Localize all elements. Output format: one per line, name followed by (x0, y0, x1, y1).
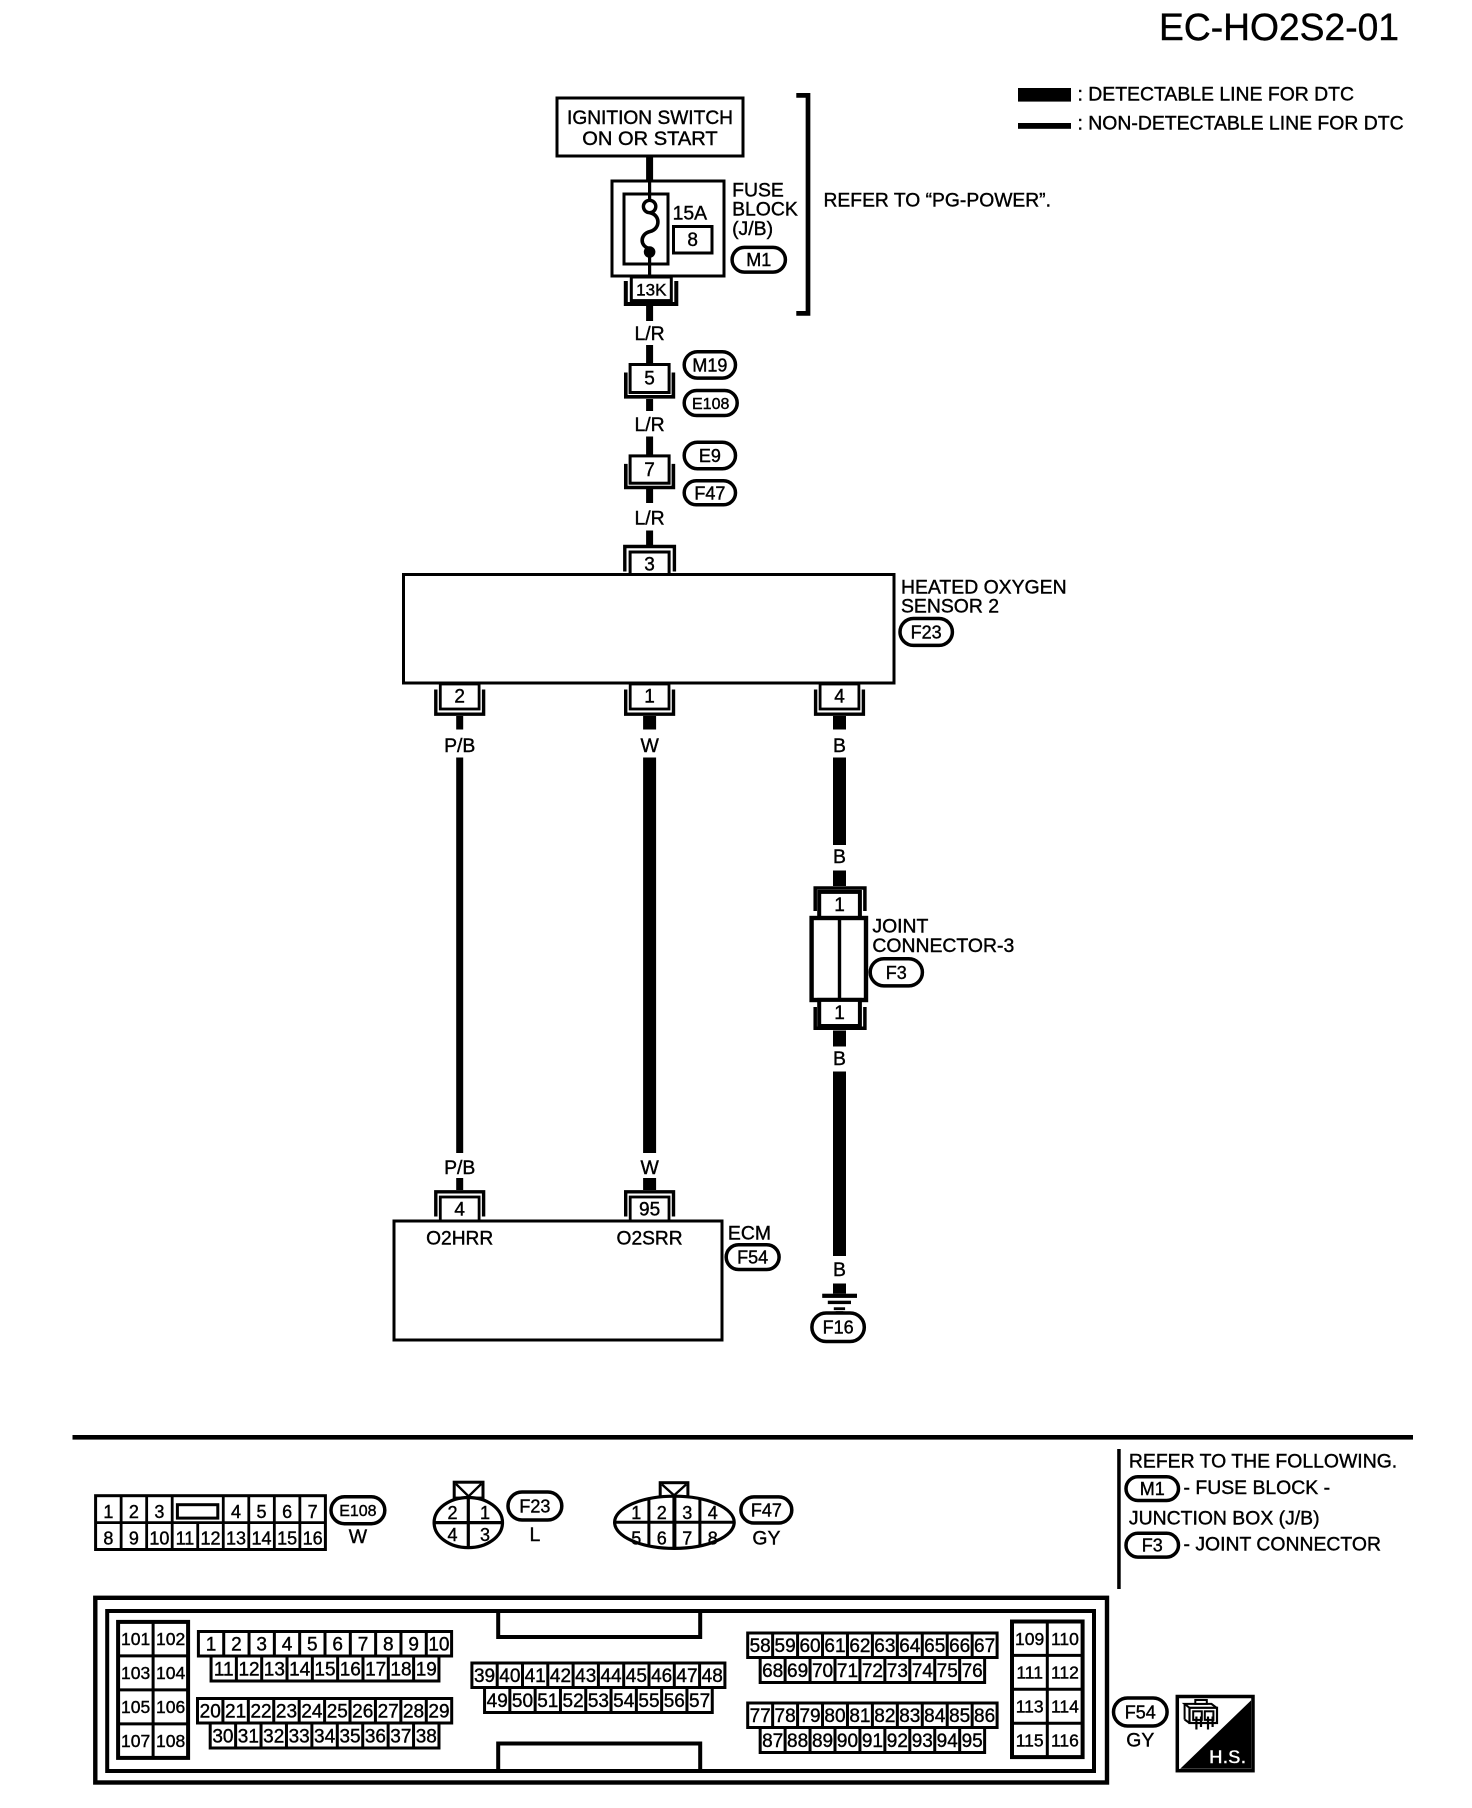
svg-text:10: 10 (428, 1635, 449, 1656)
ECM pin grid 109-116 (1012, 1622, 1083, 1758)
svg-text:: NON-DETECTABLE LINE FOR DTC: : NON-DETECTABLE LINE FOR DTC (1078, 113, 1404, 135)
svg-text:3: 3 (256, 1635, 267, 1656)
svg-text:F47: F47 (751, 1500, 782, 1520)
connector 3 into heated oxygen sensor (625, 547, 675, 577)
ECM pin row 58-67 (748, 1633, 997, 1658)
svg-text:B: B (833, 846, 846, 868)
svg-text:P/B: P/B (444, 1157, 475, 1179)
svg-text:O2HRR: O2HRR (426, 1229, 493, 1250)
svg-text:84: 84 (924, 1706, 946, 1727)
connector oval F16 (ground) (812, 1313, 864, 1342)
ECM pin row 11-19 (211, 1656, 439, 1681)
wire B joint connector to ground (833, 1072, 846, 1257)
wire label L/R (3) (635, 508, 665, 530)
svg-text:GY: GY (1126, 1730, 1154, 1752)
svg-text:7: 7 (358, 1635, 369, 1656)
wire L/R label to connector M19 (646, 345, 653, 365)
svg-text:24: 24 (301, 1702, 323, 1723)
bracket for fuse block section (796, 95, 808, 313)
svg-text:5: 5 (257, 1502, 267, 1522)
svg-text:55: 55 (638, 1691, 659, 1712)
svg-text:22: 22 (250, 1702, 271, 1723)
svg-text:60: 60 (799, 1636, 820, 1657)
svg-text:9: 9 (129, 1528, 139, 1548)
svg-text:73: 73 (887, 1661, 908, 1682)
svg-text:IGNITION SWITCH: IGNITION SWITCH (567, 107, 733, 129)
fuse block outer box (J/B) (612, 181, 724, 276)
svg-text:2: 2 (657, 1503, 667, 1523)
svg-text:(J/B): (J/B) (732, 218, 773, 240)
connector color W (E108) (349, 1526, 368, 1548)
svg-text:58: 58 (750, 1636, 771, 1657)
svg-text:44: 44 (600, 1666, 622, 1687)
ECM connector inner box (107, 1611, 1094, 1771)
svg-text:30: 30 (212, 1726, 233, 1747)
connector oval E9 (684, 442, 735, 468)
ECM pin row 20-29 (198, 1699, 452, 1724)
label joint connector-3 (872, 915, 1014, 956)
svg-text:1: 1 (644, 687, 655, 708)
svg-text:36: 36 (365, 1726, 386, 1747)
svg-text:5: 5 (307, 1635, 318, 1656)
svg-text:46: 46 (651, 1666, 672, 1687)
svg-text:EC-HO2S2-01: EC-HO2S2-01 (1159, 7, 1399, 49)
svg-text:71: 71 (837, 1661, 858, 1682)
svg-text:82: 82 (874, 1706, 895, 1727)
svg-text:9: 9 (408, 1635, 419, 1656)
wire L/R fuse block to label (646, 306, 653, 321)
svg-text:CONNECTOR-3: CONNECTOR-3 (872, 935, 1014, 957)
svg-text:15A: 15A (673, 203, 708, 225)
svg-text:SENSOR 2: SENSOR 2 (901, 596, 999, 618)
svg-text:6: 6 (332, 1635, 343, 1656)
right panel text fuse block (1184, 1477, 1331, 1499)
svg-text:102: 102 (156, 1629, 185, 1649)
connector color GY (F54) (1126, 1730, 1154, 1752)
svg-text:ON OR START: ON OR START (582, 128, 718, 150)
svg-text:14: 14 (252, 1528, 272, 1548)
wire label L/R (2) (635, 414, 665, 436)
svg-text:28: 28 (403, 1702, 424, 1723)
svg-text:108: 108 (156, 1731, 185, 1751)
svg-text:M19: M19 (692, 355, 727, 375)
svg-text:27: 27 (378, 1702, 399, 1723)
svg-text:14: 14 (289, 1659, 311, 1680)
svg-text:79: 79 (799, 1706, 820, 1727)
svg-text:12: 12 (238, 1659, 259, 1680)
svg-text:101: 101 (121, 1629, 150, 1649)
svg-text:32: 32 (263, 1726, 284, 1747)
svg-text:109: 109 (1015, 1629, 1044, 1649)
label ECM (728, 1222, 771, 1244)
svg-text:8: 8 (708, 1529, 718, 1549)
svg-text:18: 18 (390, 1659, 411, 1680)
svg-text:74: 74 (912, 1661, 934, 1682)
ECM connector outer box (95, 1598, 1107, 1783)
fuse symbol 15A inside fuse block (642, 182, 658, 277)
ECM pin row 49-57 (485, 1688, 713, 1713)
svg-text:F3: F3 (1142, 1536, 1163, 1556)
svg-text:4: 4 (282, 1635, 293, 1656)
svg-text:11: 11 (214, 1659, 234, 1680)
legend text detectable (1078, 83, 1355, 105)
svg-text:15: 15 (314, 1659, 335, 1680)
svg-text:3: 3 (644, 554, 655, 575)
ignition switch box (557, 98, 743, 156)
svg-text:O2SRR: O2SRR (617, 1229, 683, 1250)
svg-text:3: 3 (154, 1502, 164, 1522)
svg-text:W: W (349, 1526, 368, 1548)
wire label B (2) (833, 846, 846, 868)
connector oval E108 (bottom) (331, 1497, 385, 1524)
svg-text:2: 2 (231, 1635, 242, 1656)
wire stub below sensor pin 1 (643, 716, 656, 730)
svg-text:112: 112 (1051, 1663, 1079, 1683)
ECM connector top notch (498, 1611, 700, 1637)
svg-text:33: 33 (289, 1726, 310, 1747)
heated oxygen sensor 2 box (404, 575, 895, 684)
sensor pin 1 (626, 684, 674, 714)
svg-text:51: 51 (537, 1691, 558, 1712)
svg-text:REFER TO “PG-POWER”.: REFER TO “PG-POWER”. (824, 191, 1051, 212)
svg-text:31: 31 (238, 1726, 259, 1747)
svg-text:83: 83 (899, 1706, 920, 1727)
svg-text:12: 12 (200, 1528, 220, 1548)
svg-text:1: 1 (834, 895, 845, 916)
svg-text:110: 110 (1051, 1629, 1079, 1649)
svg-text:81: 81 (849, 1706, 870, 1727)
svg-text:M1: M1 (1140, 1479, 1165, 1499)
wire label B (4) (833, 1259, 846, 1281)
svg-text:3: 3 (682, 1503, 692, 1523)
wire below joint connector (833, 1031, 846, 1047)
svg-text:13: 13 (264, 1659, 285, 1680)
svg-text:16: 16 (303, 1528, 323, 1548)
svg-text:- FUSE BLOCK -: - FUSE BLOCK - (1184, 1477, 1331, 1499)
svg-text:61: 61 (824, 1636, 845, 1657)
svg-text:38: 38 (416, 1726, 437, 1747)
ECM connector bottom notch (498, 1744, 700, 1772)
svg-text:39: 39 (474, 1666, 495, 1687)
svg-text:15: 15 (277, 1528, 297, 1548)
svg-text:91: 91 (862, 1731, 883, 1752)
connector oval F47 (684, 481, 735, 505)
svg-text:43: 43 (575, 1666, 596, 1687)
ECM pin row 68-76 (760, 1658, 984, 1683)
svg-text:E108: E108 (339, 1503, 376, 1520)
svg-text:80: 80 (824, 1706, 845, 1727)
svg-text:1: 1 (480, 1503, 490, 1523)
svg-text:23: 23 (276, 1702, 297, 1723)
svg-text:19: 19 (416, 1659, 437, 1680)
svg-text:103: 103 (121, 1663, 150, 1683)
legend detectable line sample bar (1018, 88, 1071, 102)
connector oval F54 (bottom) (1114, 1698, 1168, 1726)
svg-text:6: 6 (657, 1529, 667, 1549)
svg-text:56: 56 (664, 1691, 685, 1712)
svg-text:8: 8 (383, 1635, 394, 1656)
svg-text:JUNCTION BOX (J/B): JUNCTION BOX (J/B) (1129, 1507, 1320, 1529)
wire W into ECM (643, 1178, 656, 1190)
svg-text:65: 65 (924, 1636, 945, 1657)
right panel divider vertical line (1117, 1449, 1121, 1589)
svg-text:50: 50 (512, 1691, 533, 1712)
right panel text junction box (1129, 1507, 1320, 1529)
svg-text:34: 34 (314, 1726, 336, 1747)
ECM terminal name O2HRR (426, 1229, 493, 1250)
ECM pin row 77-86 (748, 1703, 997, 1728)
svg-text:25: 25 (327, 1702, 348, 1723)
svg-text:77: 77 (750, 1706, 771, 1727)
fuse block terminal 13K connector (626, 277, 677, 304)
svg-text:49: 49 (487, 1691, 508, 1712)
connector F47 face (8-pin oval) (615, 1483, 735, 1549)
svg-text:M1: M1 (746, 250, 771, 270)
svg-text:L/R: L/R (635, 414, 665, 436)
ECM box (394, 1221, 722, 1340)
wire stub below sensor pin 2 (456, 716, 463, 730)
wire label P/B (1) (444, 735, 475, 757)
wire W long run (643, 758, 656, 1154)
connector F23 face (4-pin round) (434, 1482, 502, 1548)
svg-text:4: 4 (834, 687, 845, 708)
svg-text:6: 6 (282, 1502, 292, 1522)
svg-text:W: W (640, 735, 659, 757)
svg-text:W: W (640, 1157, 659, 1179)
svg-text:106: 106 (156, 1697, 185, 1717)
svg-text:59: 59 (775, 1636, 796, 1657)
svg-text:76: 76 (962, 1661, 983, 1682)
svg-text:GY: GY (752, 1527, 780, 1549)
svg-text:75: 75 (937, 1661, 958, 1682)
svg-text:3: 3 (480, 1525, 490, 1545)
svg-text:B: B (833, 1048, 846, 1070)
svg-text:88: 88 (787, 1731, 808, 1752)
ECM pin 4 (436, 1192, 484, 1222)
sensor pin 4 (816, 684, 864, 714)
wire label L/R (1) (635, 323, 665, 345)
svg-text:11: 11 (176, 1528, 195, 1548)
svg-text:94: 94 (937, 1731, 959, 1752)
svg-text:86: 86 (974, 1706, 995, 1727)
svg-text:104: 104 (156, 1663, 185, 1683)
svg-text:113: 113 (1016, 1697, 1044, 1717)
wire label W (2) (640, 1157, 659, 1179)
svg-text:66: 66 (949, 1636, 970, 1657)
svg-text:89: 89 (812, 1731, 833, 1752)
svg-text:42: 42 (550, 1666, 571, 1687)
svg-text:35: 35 (339, 1726, 360, 1747)
svg-text:26: 26 (352, 1702, 373, 1723)
svg-text:P/B: P/B (444, 735, 475, 757)
ECM pin row 87-95 (760, 1728, 984, 1753)
svg-text:L/R: L/R (635, 508, 665, 530)
svg-text:64: 64 (899, 1636, 921, 1657)
svg-text:1: 1 (206, 1635, 217, 1656)
svg-text:95: 95 (962, 1731, 983, 1752)
wire label B (1) (833, 735, 846, 757)
svg-text:F23: F23 (911, 622, 942, 642)
svg-text:20: 20 (200, 1702, 221, 1723)
sensor pin 2 (436, 684, 484, 714)
svg-text:62: 62 (849, 1636, 870, 1657)
svg-text:7: 7 (644, 460, 655, 481)
connector oval F54 (ECM) (726, 1245, 779, 1270)
svg-text:52: 52 (563, 1691, 584, 1712)
section separator line (73, 1435, 1414, 1440)
connector oval M19 (684, 352, 735, 378)
connector color GY (F47) (752, 1527, 780, 1549)
svg-text:13K: 13K (636, 281, 667, 300)
connector oval F3 (joint connector) (870, 959, 922, 986)
svg-text:L/R: L/R (635, 323, 665, 345)
joint connector-3 symbol with pins 1 (812, 888, 866, 1028)
right panel connector oval M1 (1126, 1477, 1179, 1501)
wire B label to joint connector (833, 871, 846, 887)
label heated oxygen sensor 2 (901, 576, 1067, 617)
svg-text:107: 107 (121, 1731, 150, 1751)
wire B sensor to label (833, 758, 846, 846)
svg-text:E108: E108 (692, 396, 729, 413)
connector grid E108 (16-pin) (96, 1496, 326, 1550)
ground symbol (822, 1294, 857, 1313)
svg-text:47: 47 (676, 1666, 697, 1687)
ECM terminal name O2SRR (617, 1229, 683, 1250)
svg-text:114: 114 (1051, 1697, 1079, 1717)
svg-text:41: 41 (525, 1666, 546, 1687)
svg-text:57: 57 (689, 1691, 710, 1712)
legend text non-detectable (1078, 113, 1404, 135)
fuse number box 8 (674, 227, 713, 254)
ECM pin row 39-48 (472, 1663, 725, 1688)
svg-text:E9: E9 (699, 446, 721, 466)
wire label B (3) (833, 1048, 846, 1070)
svg-text:90: 90 (837, 1731, 858, 1752)
svg-text:F3: F3 (886, 963, 907, 983)
connector color L (F23) (530, 1524, 541, 1546)
inline connector 7 (E9/F47) (626, 456, 674, 488)
wire below connector 5 (646, 399, 653, 411)
svg-text:92: 92 (887, 1731, 908, 1752)
svg-text:17: 17 (365, 1659, 386, 1680)
svg-text:63: 63 (874, 1636, 895, 1657)
svg-text:1: 1 (834, 1003, 845, 1024)
legend non-detectable line sample bar (1018, 123, 1071, 129)
svg-text:ECM: ECM (728, 1222, 771, 1244)
right panel text joint connector (1184, 1533, 1382, 1555)
svg-text:B: B (833, 735, 846, 757)
fuse block label text (732, 179, 798, 240)
svg-text:13: 13 (226, 1528, 246, 1548)
svg-text:116: 116 (1051, 1730, 1079, 1750)
connector oval F23 (sensor) (900, 619, 952, 646)
svg-text:F16: F16 (823, 1318, 854, 1338)
wire below connector 7 (646, 488, 653, 503)
svg-text:2: 2 (129, 1502, 139, 1522)
wire stub below sensor pin 4 (833, 716, 846, 730)
title EC-HO2S2-01 (1159, 7, 1399, 49)
svg-text:69: 69 (787, 1661, 808, 1682)
svg-text:8: 8 (103, 1528, 113, 1548)
svg-text:21: 21 (225, 1702, 246, 1723)
wire L/R label to connector 3 (646, 531, 653, 548)
svg-text:5: 5 (644, 369, 655, 390)
svg-text:53: 53 (588, 1691, 609, 1712)
svg-text:F47: F47 (694, 483, 725, 503)
svg-text:: DETECTABLE LINE FOR DTC: : DETECTABLE LINE FOR DTC (1078, 83, 1355, 105)
svg-text:37: 37 (390, 1726, 411, 1747)
svg-text:1: 1 (631, 1503, 641, 1523)
svg-text:48: 48 (702, 1666, 723, 1687)
svg-text:F54: F54 (737, 1248, 768, 1268)
connector oval E108 (684, 391, 737, 416)
wire label P/B (2) (444, 1157, 475, 1179)
svg-text:29: 29 (428, 1702, 449, 1723)
svg-text:68: 68 (762, 1661, 783, 1682)
connector oval F47 (bottom) (741, 1497, 792, 1523)
svg-text:72: 72 (862, 1661, 883, 1682)
wire P/B long run (456, 758, 463, 1154)
svg-text:1: 1 (103, 1502, 113, 1522)
svg-text:B: B (833, 1259, 846, 1281)
svg-text:70: 70 (812, 1661, 833, 1682)
right panel connector oval F3 (1126, 1533, 1179, 1557)
svg-text:4: 4 (231, 1502, 241, 1522)
svg-text:7: 7 (308, 1502, 318, 1522)
svg-text:93: 93 (912, 1731, 933, 1752)
wire P/B into ECM (456, 1178, 463, 1190)
H.S. view logo (1177, 1697, 1253, 1771)
right panel note line 1 (1129, 1451, 1397, 1473)
svg-text:85: 85 (949, 1706, 970, 1727)
wire ignition switch to fuse block (646, 156, 653, 182)
svg-text:8: 8 (687, 230, 698, 251)
svg-text:115: 115 (1016, 1730, 1044, 1750)
ECM pin row 30-38 (210, 1723, 439, 1748)
connector oval M1 (fuse block) (732, 247, 785, 272)
svg-text:67: 67 (974, 1636, 995, 1657)
fuse rating label 15A (673, 203, 708, 225)
svg-text:- JOINT CONNECTOR: - JOINT CONNECTOR (1184, 1533, 1382, 1555)
inline connector 5 (M19/E108) (626, 365, 674, 397)
note refer to PG-POWER (824, 191, 1051, 212)
ECM pin row 1-10 (198, 1632, 451, 1657)
wire L/R label to connector E9 (646, 437, 653, 456)
svg-text:95: 95 (639, 1200, 660, 1221)
svg-text:10: 10 (149, 1528, 169, 1548)
svg-text:87: 87 (762, 1731, 783, 1752)
svg-text:7: 7 (682, 1529, 692, 1549)
svg-text:111: 111 (1016, 1663, 1043, 1683)
svg-text:REFER TO THE FOLLOWING.: REFER TO THE FOLLOWING. (1129, 1451, 1397, 1473)
svg-text:5: 5 (631, 1529, 641, 1549)
svg-text:40: 40 (499, 1666, 520, 1687)
connector oval F23 (bottom) (508, 1492, 562, 1520)
svg-text:2: 2 (447, 1503, 457, 1523)
svg-text:H.S.: H.S. (1209, 1748, 1246, 1769)
svg-text:4: 4 (708, 1503, 718, 1523)
ECM pin grid 101-108 (118, 1622, 188, 1758)
wire label W (1) (640, 735, 659, 757)
svg-text:2: 2 (454, 687, 465, 708)
svg-text:4: 4 (447, 1525, 457, 1545)
svg-text:78: 78 (775, 1706, 796, 1727)
svg-text:45: 45 (626, 1666, 647, 1687)
ECM pin 95 (626, 1192, 674, 1222)
svg-text:F54: F54 (1125, 1702, 1156, 1722)
ground stub wire (833, 1284, 846, 1294)
svg-text:54: 54 (613, 1691, 635, 1712)
